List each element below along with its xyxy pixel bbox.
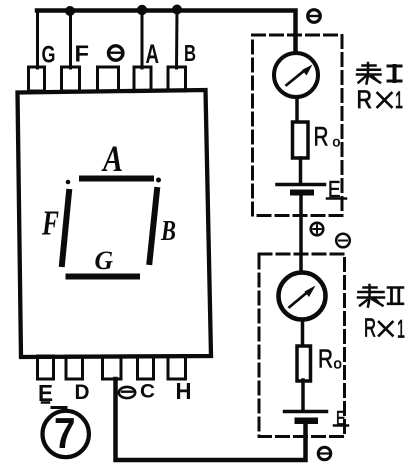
svg-text:o: o <box>334 356 342 373</box>
meter box I (dashed) <box>253 35 343 216</box>
svg-text:R: R <box>318 344 333 374</box>
label meter II (biao II) <box>358 285 384 307</box>
IC package (7-segment display) <box>18 90 212 357</box>
wire bottom: pin minus to battery II minus <box>116 379 306 460</box>
svg-text:1: 1 <box>397 316 405 344</box>
battery E (box I) <box>277 185 325 196</box>
svg-text:7: 7 <box>54 409 76 458</box>
pin minus (bottom 3) <box>103 356 122 379</box>
wire M2 to R0 (box II) <box>301 320 305 347</box>
segment A bar <box>82 176 151 182</box>
svg-text:R: R <box>357 86 373 114</box>
pin E (bottom 1) <box>38 356 54 379</box>
svg-text:F: F <box>41 204 59 243</box>
label R0 (box II) <box>318 344 342 374</box>
wire M1 to R0 <box>295 97 299 122</box>
wire stub to pin F <box>69 11 72 68</box>
figure number 7 circled <box>42 409 88 458</box>
label Rx1 (meter II) <box>364 313 405 344</box>
stray mark under E <box>42 401 49 404</box>
junction dot A <box>137 5 147 15</box>
svg-text:G: G <box>95 245 114 275</box>
svg-text:C: C <box>140 382 155 403</box>
svg-text:R: R <box>314 122 329 152</box>
pin minus (top 3) <box>98 67 119 91</box>
wire stub to pin A <box>141 11 144 68</box>
wire R0 to battery E (box II) <box>301 380 305 410</box>
svg-text:o: o <box>333 134 341 150</box>
label minus (top right) <box>308 10 321 23</box>
label R0 (box I) <box>314 122 341 152</box>
label meter I (biao I) <box>357 63 381 84</box>
wire stub to pin G <box>36 11 39 68</box>
svg-text:A: A <box>101 139 123 180</box>
wire R0 to battery E (box I) <box>299 158 303 183</box>
wire battery I down to meter II <box>299 196 303 274</box>
resistor R0 (box II) <box>297 346 311 381</box>
svg-text:A: A <box>146 39 160 69</box>
svg-text:B: B <box>184 40 196 66</box>
pin D (bottom 2) <box>66 356 83 379</box>
label Rx1 (meter I) <box>357 86 404 114</box>
stray dash below D <box>52 406 66 409</box>
battery E (box II) <box>285 412 327 425</box>
segment B bar <box>150 190 158 262</box>
svg-text:B: B <box>160 216 176 247</box>
bracket under E (box II) <box>334 424 348 427</box>
pin G (top 1) <box>29 67 45 91</box>
pin F (top 2) <box>62 67 80 91</box>
wire stub to pin B <box>175 10 179 68</box>
junction dot F <box>65 6 75 16</box>
svg-text:R: R <box>364 313 376 343</box>
pin B (top 5) <box>168 67 186 91</box>
meter M1 <box>274 53 318 97</box>
label minus (bottom right) <box>318 447 331 460</box>
label roman numeral I <box>388 66 401 81</box>
pin C (bottom 4) <box>138 356 154 379</box>
pin A (top 4) <box>134 67 151 91</box>
svg-text:D: D <box>75 381 90 404</box>
svg-text:G: G <box>42 42 56 69</box>
label minus (between boxes) <box>336 234 350 248</box>
meter M2 <box>279 273 326 320</box>
wire top bus <box>37 11 296 54</box>
resistor R0 (box I) <box>293 122 309 158</box>
svg-text:F: F <box>75 41 90 67</box>
junction dot B <box>172 5 182 15</box>
meter box II (dashed) <box>259 254 345 437</box>
tick left of segment A <box>66 180 71 185</box>
label plus (between boxes) <box>311 223 324 236</box>
tick right of segment A <box>156 178 161 183</box>
pin H (bottom 5) <box>168 356 186 379</box>
segment G bar <box>69 274 138 280</box>
label roman numeral II <box>388 288 403 304</box>
svg-text:H: H <box>176 378 192 404</box>
svg-text:1: 1 <box>395 87 403 114</box>
label minus (top) <box>109 46 123 60</box>
bracket under E (box I) <box>327 197 346 200</box>
label minus (bottom) <box>119 387 135 398</box>
segment F bar <box>62 192 69 264</box>
